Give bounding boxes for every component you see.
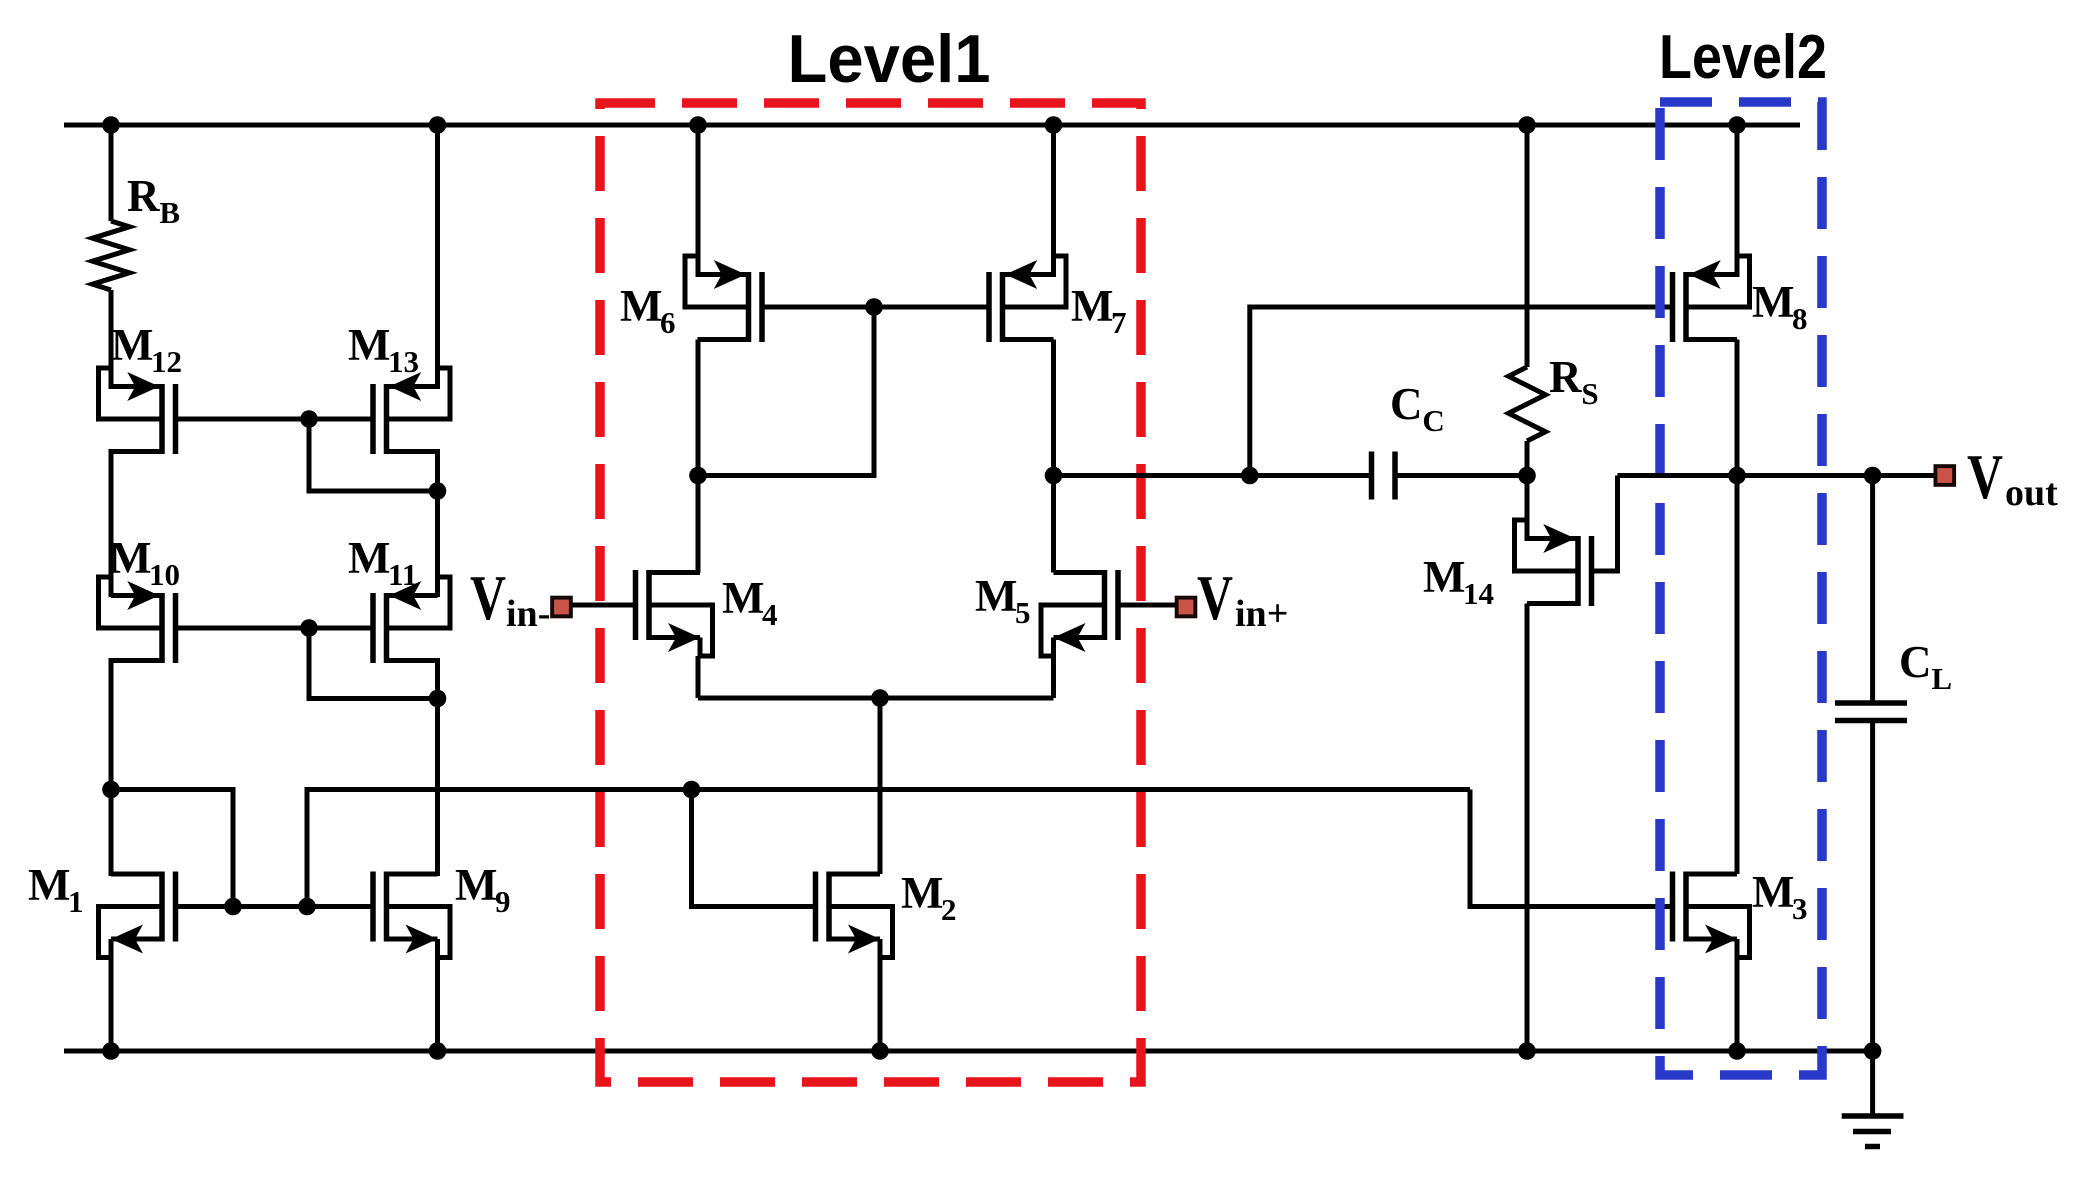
label Vin- xyxy=(470,563,550,635)
wire M3 source to VSS xyxy=(1735,958,1740,1052)
label M13 xyxy=(348,320,419,379)
node M2-VSS xyxy=(871,1042,889,1060)
wire RS top xyxy=(1525,125,1530,367)
label Level1 xyxy=(788,21,991,97)
terminal Vout square xyxy=(1934,464,1957,487)
node tail node xyxy=(871,689,889,707)
svg-text:L: L xyxy=(1931,661,1952,696)
transistor M13 xyxy=(373,368,450,454)
wire M1-M9 gate row xyxy=(176,904,374,909)
svg-text:M: M xyxy=(111,320,153,370)
label M6 xyxy=(620,281,676,340)
svg-text:R: R xyxy=(1549,352,1582,402)
node RS-CC-M14 node xyxy=(1518,467,1536,485)
svg-text:M: M xyxy=(1752,867,1794,917)
label Vout xyxy=(1967,442,2058,514)
wire Vin+ to M5 gate xyxy=(1118,603,1175,608)
wire M12-M13 gate line xyxy=(176,417,374,422)
node M13 drain diode node xyxy=(429,482,447,500)
wire M8 drain to Vout xyxy=(1735,340,1740,476)
wire M2 gate drop xyxy=(692,790,816,907)
svg-text:S: S xyxy=(1581,376,1598,411)
capacitor CL xyxy=(1835,703,1907,721)
capacitor CC xyxy=(1372,452,1396,500)
node M14-VSS xyxy=(1518,1042,1536,1060)
node VDD-M13 junction xyxy=(429,116,447,134)
wire M2 source to VSS xyxy=(878,958,883,1052)
wire M4 source down xyxy=(696,656,701,698)
wire M5 source down xyxy=(1051,656,1056,698)
svg-text:V: V xyxy=(1197,563,1233,633)
node M8 gate branch xyxy=(1241,467,1259,485)
node M9-VSS xyxy=(429,1042,447,1060)
svg-text:Level2: Level2 xyxy=(1659,23,1827,92)
wire M6 drain to M4 xyxy=(696,340,701,573)
transistor M10 xyxy=(99,577,176,663)
svg-text:M: M xyxy=(348,320,390,370)
transistor M1 xyxy=(99,872,176,958)
wire bias bridge down xyxy=(111,790,233,907)
label M4 xyxy=(722,573,778,632)
label M1 xyxy=(28,860,84,919)
wire RB to M12 xyxy=(109,290,114,389)
node M2 gate branch xyxy=(683,781,701,799)
svg-text:10: 10 xyxy=(149,557,180,592)
svg-text:C: C xyxy=(1390,379,1423,429)
wire VSS bottom rail xyxy=(64,1049,1874,1054)
svg-text:V: V xyxy=(470,563,506,633)
svg-text:M: M xyxy=(975,571,1017,621)
svg-text:in+: in+ xyxy=(1235,593,1288,635)
svg-text:out: out xyxy=(2005,472,2058,514)
wire M9 source to VSS xyxy=(435,958,440,1052)
svg-text:R: R xyxy=(127,171,160,221)
wire M13 drain to M11 xyxy=(435,449,440,597)
label CC xyxy=(1390,379,1445,438)
wire M3 gate drop xyxy=(1470,790,1673,907)
node VDD-RS xyxy=(1518,116,1536,134)
label RS xyxy=(1549,352,1599,411)
node VDD-RB junction xyxy=(102,116,120,134)
label RB xyxy=(127,171,180,230)
wire M11 drain to M9 xyxy=(435,658,440,876)
wire M12 drain to M10 xyxy=(109,449,114,597)
svg-text:M: M xyxy=(722,573,764,623)
terminal Vin- square xyxy=(550,596,573,619)
transistor M7 xyxy=(989,256,1066,342)
wire VDD top rail xyxy=(64,123,1800,128)
wire bias bridge up xyxy=(307,790,1470,907)
label Level2 xyxy=(1659,23,1827,92)
svg-text:5: 5 xyxy=(1015,595,1031,630)
resistor RB xyxy=(93,221,130,290)
node M12-M13 gate node xyxy=(300,410,318,428)
wire RB top xyxy=(109,125,114,221)
wire Vout line xyxy=(1618,473,1934,478)
label Vin+ xyxy=(1197,563,1288,635)
wire VDD to M7 xyxy=(1051,125,1056,277)
transistor M5 xyxy=(1041,570,1118,656)
box Level1 dashed xyxy=(600,103,1141,1082)
wire CL top xyxy=(1870,476,1875,704)
svg-text:11: 11 xyxy=(388,557,417,592)
svg-text:6: 6 xyxy=(660,305,676,340)
resistor RS xyxy=(1509,367,1546,441)
svg-text:B: B xyxy=(159,195,180,230)
wire stage1 out to CC xyxy=(1054,473,1372,478)
wire VDD to M6 xyxy=(696,125,701,277)
node bias line left xyxy=(102,781,120,799)
svg-text:M: M xyxy=(620,281,662,331)
svg-text:M: M xyxy=(455,860,497,910)
node M6-M7 gate node xyxy=(865,298,883,316)
svg-text:M: M xyxy=(109,533,151,583)
svg-text:M: M xyxy=(1071,281,1113,331)
label M11 xyxy=(348,533,417,592)
transistor M3 xyxy=(1673,872,1750,958)
label M5 xyxy=(975,571,1031,630)
svg-text:M: M xyxy=(1752,277,1794,327)
wire M6-M7 gate line xyxy=(762,305,989,310)
box Level2 dashed xyxy=(1660,102,1822,1075)
svg-text:1: 1 xyxy=(68,884,84,919)
transistor M2 xyxy=(816,872,893,958)
svg-text:M: M xyxy=(1423,552,1465,602)
ground xyxy=(1842,1116,1904,1147)
label M9 xyxy=(455,860,511,919)
label M8 xyxy=(1752,277,1808,336)
wire VSS to ground xyxy=(1870,1051,1875,1116)
svg-text:2: 2 xyxy=(941,892,957,927)
node Vout-CL node xyxy=(1864,467,1882,485)
svg-text:8: 8 xyxy=(1792,301,1808,336)
wire CL bottom xyxy=(1870,721,1875,1052)
wire CC to RS node xyxy=(1395,473,1527,478)
svg-text:3: 3 xyxy=(1792,891,1808,926)
node gate row left xyxy=(224,898,242,916)
wire M14 drain to VSS xyxy=(1525,604,1530,1052)
svg-text:C: C xyxy=(1899,637,1932,687)
wire M7 drain to M5 xyxy=(1051,340,1056,573)
svg-text:M: M xyxy=(901,868,943,918)
node M3-VSS xyxy=(1728,1042,1746,1060)
svg-text:9: 9 xyxy=(495,884,511,919)
transistor M8 xyxy=(1673,256,1750,342)
node gate row right xyxy=(298,898,316,916)
svg-text:M: M xyxy=(28,860,70,910)
wire RS bottom xyxy=(1525,441,1530,476)
svg-text:C: C xyxy=(1422,403,1444,438)
wire M14 gate to Vout line xyxy=(1592,476,1618,572)
label M14 xyxy=(1423,552,1494,611)
label M2 xyxy=(901,868,957,927)
label M10 xyxy=(109,533,180,592)
wire VDD to M13 xyxy=(435,125,440,389)
wire VDD to M8 xyxy=(1735,125,1740,277)
transistor M9 xyxy=(373,872,450,958)
svg-text:in-: in- xyxy=(506,593,550,635)
node VDD-M7 xyxy=(1045,116,1063,134)
node M11 drain diode node xyxy=(429,690,447,708)
label M3 xyxy=(1752,867,1808,926)
node M1-VSS xyxy=(102,1042,120,1060)
label M12 xyxy=(111,320,182,379)
transistor M12 xyxy=(99,368,176,454)
node M6-M4 drain node xyxy=(689,467,707,485)
wire M3 drain to Vout xyxy=(1735,476,1740,875)
wire tail line xyxy=(698,696,1054,701)
transistor M11 xyxy=(373,577,450,663)
wire M14 source up xyxy=(1525,476,1530,542)
svg-text:4: 4 xyxy=(762,597,778,632)
node VDD-M6 xyxy=(689,116,707,134)
svg-text:V: V xyxy=(1967,442,2003,512)
transistor M4 xyxy=(636,570,713,656)
label M7 xyxy=(1071,281,1127,340)
transistor M14 xyxy=(1515,520,1592,606)
transistor M6 xyxy=(685,256,762,342)
wire M11 diode link xyxy=(309,628,438,699)
svg-text:Level1: Level1 xyxy=(788,21,991,97)
label CL xyxy=(1899,637,1952,696)
node stage1 output node xyxy=(1045,467,1063,485)
wire M1 source to VSS xyxy=(109,958,114,1052)
wire M6 diode link xyxy=(698,307,874,476)
wire M10-M11 gate line xyxy=(176,626,374,631)
node M10-M11 gate node xyxy=(300,619,318,637)
wire M13 diode link xyxy=(309,419,438,491)
node CL-VSS xyxy=(1864,1042,1882,1060)
wire Vin- to M4 gate xyxy=(573,603,636,608)
svg-text:12: 12 xyxy=(151,344,182,379)
node VDD-M8 xyxy=(1728,116,1746,134)
wire M10 drain to M1 xyxy=(109,658,114,876)
wire M2 drain to tail xyxy=(878,698,883,874)
terminal Vin+ square xyxy=(1175,596,1198,619)
node M8 drain Vout node xyxy=(1728,467,1746,485)
svg-text:13: 13 xyxy=(388,344,419,379)
svg-text:7: 7 xyxy=(1111,305,1127,340)
svg-text:M: M xyxy=(348,533,390,583)
wire M8 gate line xyxy=(1250,307,1673,476)
svg-text:14: 14 xyxy=(1463,576,1494,611)
